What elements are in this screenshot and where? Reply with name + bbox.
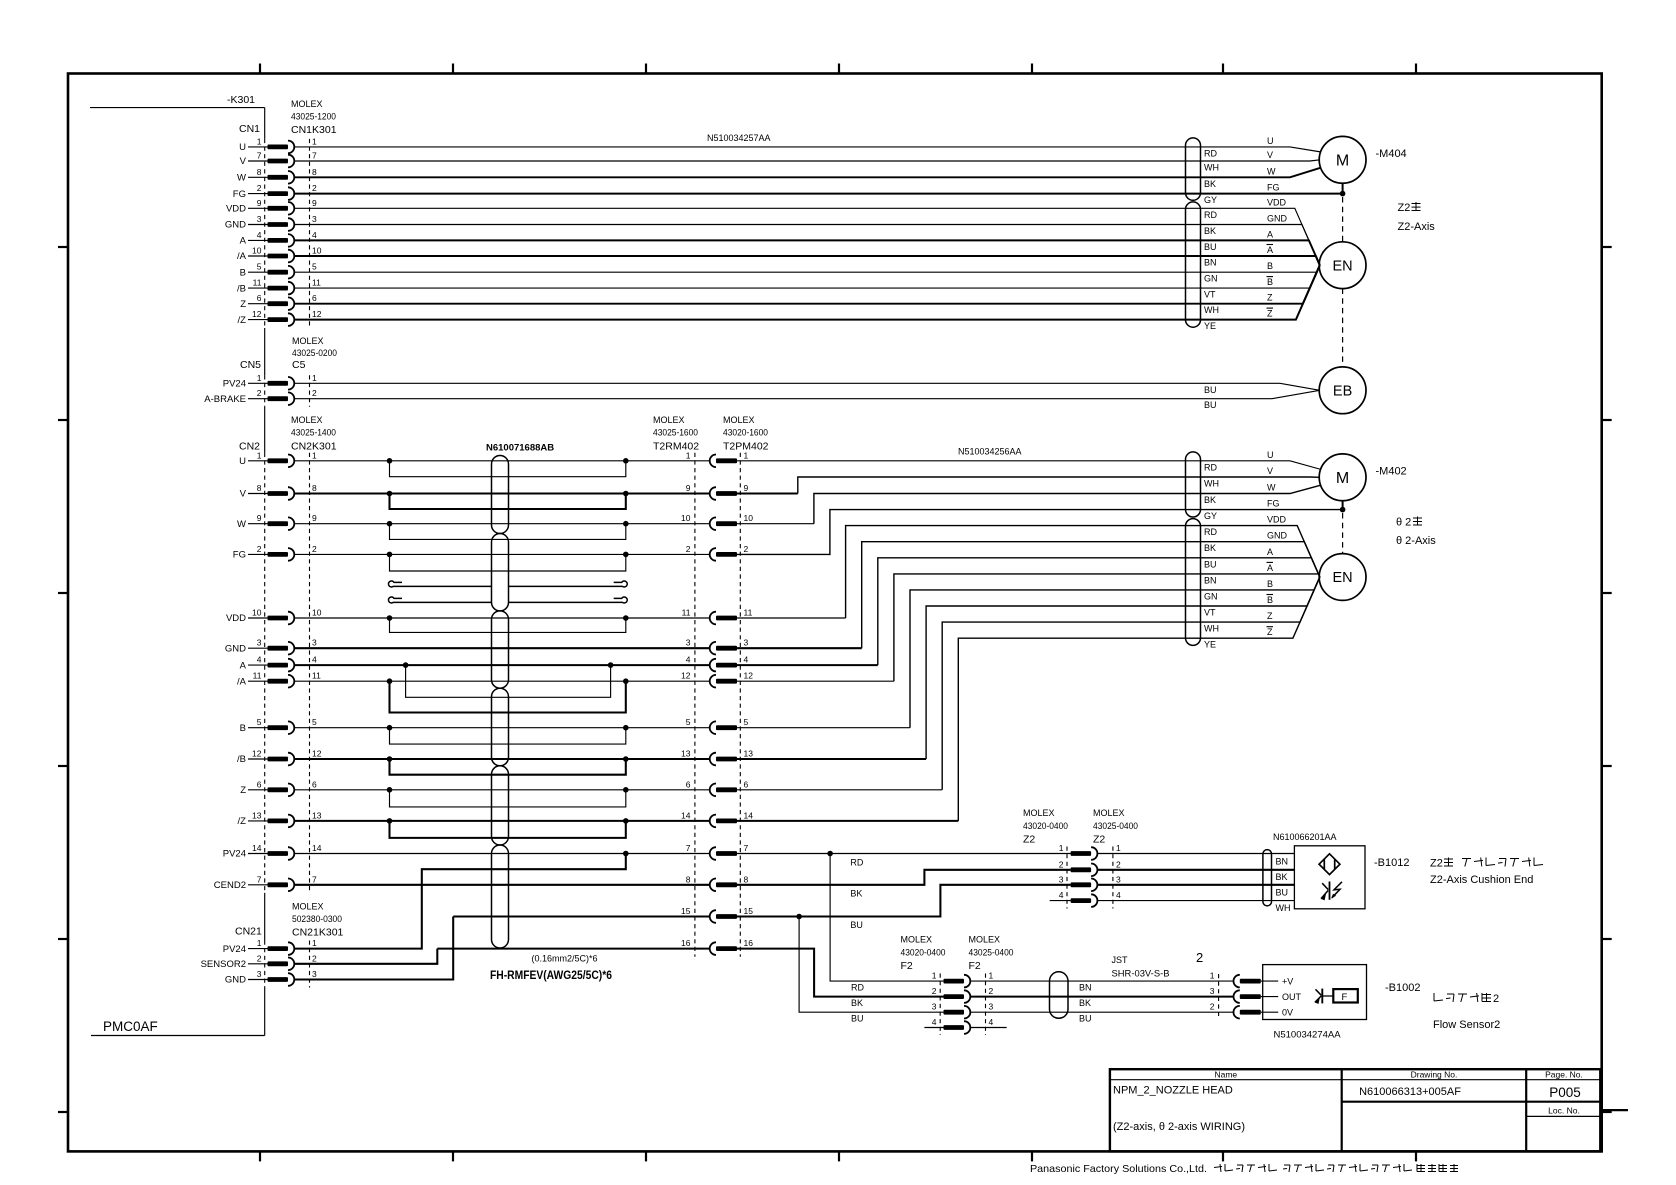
svg-text:N610071688AB: N610071688AB bbox=[486, 443, 554, 454]
svg-text:2: 2 bbox=[312, 183, 317, 193]
svg-text:7: 7 bbox=[744, 843, 749, 853]
svg-text:BK: BK bbox=[851, 998, 863, 1008]
svg-text:6: 6 bbox=[257, 293, 262, 303]
connector CN2 pin 2 (FG) bbox=[233, 544, 317, 561]
svg-text:B: B bbox=[1267, 261, 1273, 271]
svg-text:RD: RD bbox=[1204, 462, 1217, 472]
svg-text:11: 11 bbox=[682, 608, 691, 618]
connector Z2 (MOLEX 43025-0400) header bbox=[1093, 808, 1138, 846]
svg-text:Name: Name bbox=[1214, 1070, 1237, 1080]
wire F2 pin1 to JST (BN) bbox=[970, 980, 1234, 982]
svg-text:VDD: VDD bbox=[226, 204, 246, 215]
svg-text:4: 4 bbox=[686, 655, 691, 665]
connector CN1 pin 6 (Z) bbox=[240, 293, 317, 310]
connector CN5 housing dashed lines bbox=[265, 375, 310, 406]
wire CEND2 (CN2-7 through T2 pin8 to Z2 pin2) bbox=[295, 870, 1071, 885]
label Z2-axis cushion end (JP) bbox=[1430, 858, 1543, 887]
svg-text:BU: BU bbox=[1079, 1014, 1092, 1024]
svg-text:3: 3 bbox=[1116, 874, 1121, 884]
svg-text:8: 8 bbox=[257, 483, 262, 493]
svg-text:-B1012: -B1012 bbox=[1374, 857, 1409, 869]
svg-text:MOLEX: MOLEX bbox=[723, 415, 755, 425]
cable shield N510034257AA (encoder cores) bbox=[1186, 202, 1201, 327]
connector Z2 pin 2 bbox=[1059, 859, 1121, 876]
wire F2 pin3 to JST (BU) bbox=[970, 1011, 1234, 1013]
svg-text:7: 7 bbox=[686, 843, 691, 853]
sensor B1012 (Z2-axis cushion end) bbox=[1294, 846, 1365, 909]
svg-text:A: A bbox=[240, 660, 247, 671]
svg-text:B: B bbox=[1267, 277, 1273, 287]
svg-text:VDD: VDD bbox=[1267, 197, 1287, 207]
svg-text:BK: BK bbox=[1204, 179, 1216, 189]
connector JST pin 2 bbox=[1210, 1002, 1261, 1019]
svg-text:7: 7 bbox=[257, 151, 262, 161]
svg-text:F2: F2 bbox=[969, 960, 981, 972]
junction FG / M404 frame bbox=[1340, 183, 1346, 196]
connector pair T2RM402/T2PM402 pin 5 bbox=[686, 717, 749, 734]
wire A-BRAKE (CN5-2 to EB brake) bbox=[295, 390, 1320, 398]
svg-text:Z2: Z2 bbox=[1023, 834, 1035, 846]
svg-text:W: W bbox=[1267, 166, 1276, 176]
svg-text:15: 15 bbox=[681, 906, 691, 916]
connector CN2 pin 10 (VDD) bbox=[226, 608, 322, 625]
wire stub Z2 pin4 bbox=[1050, 900, 1071, 902]
connector CN1 pin 12 (/Z) bbox=[238, 309, 322, 326]
svg-text:43025-1600: 43025-1600 bbox=[653, 427, 698, 437]
svg-text:NPM_2_NOZZLE HEAD: NPM_2_NOZZLE HEAD bbox=[1113, 1085, 1233, 1097]
wire color labels (B1002 cable) bbox=[1079, 983, 1092, 1024]
svg-text:BK: BK bbox=[1204, 543, 1216, 553]
svg-text:MOLEX: MOLEX bbox=[291, 415, 323, 425]
svg-text:(Z2-axis, θ 2-axis WIRING): (Z2-axis, θ 2-axis WIRING) bbox=[1113, 1121, 1245, 1133]
svg-text:BN: BN bbox=[1204, 575, 1217, 585]
connector pair T2RM402/T2PM402 pin 8 bbox=[686, 874, 749, 891]
svg-text:BK: BK bbox=[1276, 872, 1288, 882]
wire F2 pin2 to JST (BK) bbox=[970, 996, 1234, 998]
svg-text:13: 13 bbox=[744, 749, 754, 759]
svg-text:RD: RD bbox=[850, 858, 863, 868]
svg-text:7: 7 bbox=[312, 874, 317, 884]
svg-text:4: 4 bbox=[1116, 890, 1121, 900]
wire Z2 pin1 to B1012 (BN) bbox=[1097, 853, 1294, 855]
svg-text:10: 10 bbox=[681, 513, 691, 523]
wire color labels (theta2 cable) bbox=[1204, 462, 1219, 649]
svg-text:43025-0400: 43025-0400 bbox=[969, 948, 1014, 958]
cable shield N510034256AA (motor cores) bbox=[1186, 452, 1201, 517]
svg-text:BU: BU bbox=[1204, 385, 1217, 395]
svg-text:RD: RD bbox=[851, 983, 864, 993]
connector CN21 / CN21K301 header bbox=[235, 902, 344, 939]
svg-text:N510034256AA: N510034256AA bbox=[958, 447, 1022, 457]
svg-text:B: B bbox=[240, 723, 246, 734]
brake EB bbox=[1319, 367, 1366, 414]
twisted-pair return loop (VDD) bbox=[387, 615, 629, 632]
wire /B (CN1-11 to EN encoder) bbox=[295, 265, 1320, 288]
wire PV24 (CN5-1 to EB brake) bbox=[295, 383, 1320, 390]
svg-text:4: 4 bbox=[744, 655, 749, 665]
connector pair T2RM402/T2PM402 pin 1 bbox=[686, 450, 749, 467]
wire T2 pin16 (SENSOR2 route) bbox=[437, 949, 943, 997]
svg-text:B: B bbox=[240, 267, 246, 278]
svg-text:11: 11 bbox=[253, 671, 262, 681]
svg-text:2: 2 bbox=[1116, 859, 1121, 869]
svg-text:3: 3 bbox=[1210, 986, 1215, 996]
cut shield drain wires (right) bbox=[509, 581, 628, 603]
svg-text:1: 1 bbox=[312, 938, 317, 948]
wire Z2 pin3 to B1012 (BU) bbox=[1097, 884, 1294, 886]
wire Z2 pin4 to B1012 (WH) bbox=[1097, 900, 1294, 902]
motor/encoder terminal labels (theta2 axis) bbox=[1267, 450, 1288, 637]
connector CN21 pin 3 (GND) bbox=[225, 969, 317, 986]
wire V (CN1-7 to M404) bbox=[295, 160, 1320, 161]
connector CN2 housing dashed lines bbox=[265, 453, 310, 893]
svg-text:FG: FG bbox=[233, 550, 246, 561]
connector CN1 housing dashed lines bbox=[265, 139, 310, 328]
svg-text:RD: RD bbox=[1204, 210, 1217, 220]
svg-text:2: 2 bbox=[1196, 950, 1203, 965]
svg-text:1: 1 bbox=[257, 450, 262, 460]
wire color labels (Z2 cushion feed) bbox=[850, 858, 863, 931]
svg-text:-M404: -M404 bbox=[1376, 148, 1407, 160]
footer company name bbox=[1030, 1163, 1458, 1175]
connector JST pin 1 bbox=[1210, 971, 1261, 988]
svg-text:BU: BU bbox=[1276, 888, 1289, 898]
connector pair T2RM402/T2PM402 pin 11 bbox=[682, 608, 753, 625]
svg-text:N510034274AA: N510034274AA bbox=[1274, 1030, 1342, 1041]
wire VDD (CN1-9 to EN encoder) bbox=[295, 208, 1320, 265]
svg-text:BU: BU bbox=[1204, 559, 1217, 569]
svg-text:V: V bbox=[240, 489, 247, 500]
wire FG (CN2-2 to T2RM402) bbox=[295, 553, 710, 555]
svg-text:BK: BK bbox=[1204, 495, 1216, 505]
svg-text:JST: JST bbox=[1112, 955, 1129, 965]
connector pair T2RM402/T2PM402 pin 16 bbox=[681, 938, 753, 955]
connector F2 (MOLEX 43020-0400) header bbox=[901, 935, 946, 973]
svg-text:MOLEX: MOLEX bbox=[1023, 808, 1055, 818]
encoder EN (Z2) bbox=[1319, 242, 1366, 289]
twisted-pair return loop (V) bbox=[387, 491, 629, 509]
svg-text:12: 12 bbox=[312, 749, 322, 759]
wire Z (CN1-6 to EN encoder) bbox=[295, 265, 1320, 304]
svg-text:YE: YE bbox=[1204, 640, 1216, 650]
connector F2 pin 1 bbox=[932, 971, 994, 988]
svg-text:2: 2 bbox=[257, 183, 262, 193]
svg-text:Z: Z bbox=[1267, 627, 1273, 637]
connector pair T2RM402/T2PM402 pin 3 bbox=[686, 638, 749, 655]
connector F2 pin 2 bbox=[932, 986, 994, 1003]
svg-text:-M402: -M402 bbox=[1376, 466, 1407, 478]
svg-text:3: 3 bbox=[257, 214, 262, 224]
connector pair T2RM402/T2PM402 pin 15 bbox=[681, 906, 753, 923]
svg-text:A-BRAKE: A-BRAKE bbox=[204, 394, 246, 405]
svg-text:8: 8 bbox=[744, 874, 749, 884]
svg-text:F: F bbox=[1342, 992, 1348, 1003]
svg-text:BK: BK bbox=[850, 889, 862, 899]
connector T2RM402/T2PM402 housing dashed lines bbox=[695, 453, 740, 957]
wire U (CN2-1 to T2RM402) bbox=[295, 460, 710, 462]
svg-text:VDD: VDD bbox=[1267, 515, 1287, 525]
wire CN21 GND riser bbox=[295, 917, 454, 980]
wire CN21 SENSOR2 riser bbox=[295, 949, 438, 964]
connector CN1 pin 11 (/B) bbox=[237, 278, 321, 295]
svg-text:MOLEX: MOLEX bbox=[653, 415, 685, 425]
wire /A (T2 to EN theta2) bbox=[737, 680, 894, 682]
svg-text:B: B bbox=[1267, 595, 1273, 605]
svg-text:MOLEX: MOLEX bbox=[291, 99, 323, 109]
wire FG (CN1-2 to M404 frame) bbox=[295, 193, 1343, 195]
svg-text:3: 3 bbox=[312, 214, 317, 224]
svg-text:9: 9 bbox=[257, 198, 262, 208]
connector CN2 / CN2K301 header bbox=[239, 415, 337, 453]
wire FG (T2 to M402 frame) bbox=[737, 510, 1343, 555]
svg-text:Loc. No.: Loc. No. bbox=[1548, 1106, 1580, 1116]
connector F2 (MOLEX 43025-0400) header bbox=[969, 935, 1014, 973]
svg-text:SHR-03V-S-B: SHR-03V-S-B bbox=[1112, 969, 1170, 979]
svg-text:GN: GN bbox=[1204, 591, 1218, 601]
svg-text:PV24: PV24 bbox=[223, 849, 246, 860]
connector CN1 / CN1K301 header bbox=[239, 99, 337, 136]
svg-text:2: 2 bbox=[1493, 993, 1499, 1005]
svg-text:3: 3 bbox=[1059, 874, 1064, 884]
connector CN1 pin 7 (V) bbox=[240, 151, 317, 168]
svg-text:11: 11 bbox=[312, 671, 321, 681]
svg-text:2: 2 bbox=[989, 986, 994, 996]
svg-text:M: M bbox=[1336, 470, 1349, 487]
connector CN2 pin 7 (CEND2) bbox=[214, 874, 317, 891]
connector CN1 pin 2 (FG) bbox=[233, 183, 317, 200]
wire VDD (CN2-10 to T2RM402) bbox=[295, 617, 710, 619]
svg-text:10: 10 bbox=[312, 246, 322, 256]
connector pair T2RM402/T2PM402 pin 7 bbox=[686, 843, 749, 860]
svg-text:5: 5 bbox=[744, 717, 749, 727]
svg-text:1: 1 bbox=[312, 450, 317, 460]
svg-text:MOLEX: MOLEX bbox=[901, 935, 933, 945]
svg-text:N610066201AA: N610066201AA bbox=[1273, 832, 1337, 842]
wire GND (T2 to EN theta2) bbox=[737, 647, 862, 649]
motor M404 bbox=[1319, 136, 1366, 183]
svg-text:Flow Sensor2: Flow Sensor2 bbox=[1433, 1019, 1500, 1031]
svg-text:Z2: Z2 bbox=[1430, 858, 1443, 870]
twisted-pair return loop (/A) bbox=[387, 678, 629, 712]
cable shield N510034256AA (encoder cores) bbox=[1186, 519, 1201, 646]
svg-text:2: 2 bbox=[257, 544, 262, 554]
wire CN21 PV24 branch (to CN2 PV24) bbox=[295, 854, 626, 949]
svg-text:SENSOR2: SENSOR2 bbox=[201, 959, 246, 970]
svg-text:16: 16 bbox=[681, 938, 691, 948]
wire /A (CN2-11 to T2RM402) bbox=[295, 680, 710, 682]
svg-text:WH: WH bbox=[1204, 163, 1219, 173]
svg-text:2: 2 bbox=[312, 953, 317, 963]
svg-text:5: 5 bbox=[257, 717, 262, 727]
svg-text:43020-1600: 43020-1600 bbox=[723, 427, 768, 437]
svg-text:V: V bbox=[240, 156, 247, 167]
dashed link EN to EB bbox=[1342, 289, 1344, 368]
svg-text:VT: VT bbox=[1204, 290, 1216, 300]
connector pair T2RM402/T2PM402 pin 12 bbox=[681, 671, 753, 688]
svg-text:13: 13 bbox=[312, 810, 322, 820]
svg-text:BN: BN bbox=[1079, 983, 1092, 993]
svg-text:Z: Z bbox=[1267, 309, 1273, 319]
svg-text:(0.16mm2/5C)*6: (0.16mm2/5C)*6 bbox=[532, 954, 598, 964]
svg-text:4: 4 bbox=[989, 1017, 994, 1027]
svg-text:B: B bbox=[1267, 579, 1273, 589]
svg-text:2: 2 bbox=[1210, 1002, 1215, 1012]
wire /Z (CN2-13 to T2RM402) bbox=[295, 820, 710, 822]
unit PMC0AF label bbox=[91, 1019, 265, 1036]
wire PV24 (CN2-14 through T2 pin7 to Z2 pin1) bbox=[295, 851, 1071, 857]
svg-text:1: 1 bbox=[312, 136, 317, 146]
svg-text:12: 12 bbox=[681, 671, 691, 681]
svg-text:6: 6 bbox=[312, 293, 317, 303]
wire U (CN1-1 to M404) bbox=[295, 147, 1322, 152]
svg-text:502380-0300: 502380-0300 bbox=[292, 914, 342, 924]
wire B (CN1-5 to EN encoder) bbox=[295, 265, 1320, 272]
svg-text:43025-1200: 43025-1200 bbox=[291, 112, 336, 122]
svg-text:A: A bbox=[1267, 547, 1273, 557]
wire A (CN2-4 to T2RM402) bbox=[295, 664, 710, 666]
svg-text:Z2: Z2 bbox=[1093, 834, 1105, 846]
svg-text:10: 10 bbox=[252, 246, 262, 256]
svg-text:θ 2-Axis: θ 2-Axis bbox=[1396, 535, 1436, 547]
wire A (T2 to EN theta2) bbox=[737, 664, 878, 666]
svg-text:+V: +V bbox=[1282, 977, 1293, 987]
svg-text:1: 1 bbox=[1059, 843, 1064, 853]
svg-text:GN: GN bbox=[1204, 274, 1218, 284]
svg-text:CN21K301: CN21K301 bbox=[292, 927, 344, 939]
connector T2PM402 header bbox=[723, 415, 769, 453]
svg-text:2: 2 bbox=[932, 986, 937, 996]
svg-text:9: 9 bbox=[686, 483, 691, 493]
connector CN1 pin 10 (/A) bbox=[237, 246, 322, 263]
wire /B (CN2-12 to T2RM402) bbox=[295, 758, 710, 760]
wire branch PV24 to F2 pin1 (RD) bbox=[830, 854, 943, 982]
svg-text:WH: WH bbox=[1204, 624, 1219, 634]
svg-text:BK: BK bbox=[1079, 998, 1091, 1008]
svg-text:43020-0400: 43020-0400 bbox=[901, 948, 946, 958]
svg-text:V: V bbox=[1267, 466, 1273, 476]
connector CN5 / C5 header bbox=[240, 336, 337, 371]
svg-text:BU: BU bbox=[1204, 400, 1217, 410]
svg-text:-B1002: -B1002 bbox=[1385, 982, 1420, 994]
wire /Z (CN1-12 to EN encoder) bbox=[295, 265, 1320, 319]
svg-text:FG: FG bbox=[1267, 183, 1280, 193]
wire stub F2 pin4 right bbox=[970, 1027, 1007, 1029]
svg-text:6: 6 bbox=[312, 779, 317, 789]
svg-text:EN: EN bbox=[1333, 258, 1353, 274]
svg-text:14: 14 bbox=[312, 843, 322, 853]
svg-text:M: M bbox=[1336, 153, 1349, 170]
svg-text:9: 9 bbox=[312, 513, 317, 523]
svg-text:3: 3 bbox=[686, 638, 691, 648]
svg-text:BU: BU bbox=[850, 920, 863, 930]
wire VDD (T2 to EN theta2) bbox=[737, 617, 846, 619]
svg-text:U: U bbox=[239, 142, 246, 153]
wire /B (T2 to EN theta2) bbox=[737, 758, 926, 760]
wire T2 pin15 (CN21 GND route to Z2 pin3) bbox=[453, 885, 1070, 920]
svg-text:2: 2 bbox=[1059, 859, 1064, 869]
svg-text:Panasonic Factory Solutions Co: Panasonic Factory Solutions Co.,Ltd. bbox=[1030, 1163, 1207, 1175]
svg-text:7: 7 bbox=[257, 874, 262, 884]
svg-text:2: 2 bbox=[257, 953, 262, 963]
svg-text:4: 4 bbox=[932, 1017, 937, 1027]
connector CN2 pin 4 (A) bbox=[240, 655, 317, 672]
svg-text:U: U bbox=[1267, 136, 1274, 146]
svg-text:5: 5 bbox=[312, 717, 317, 727]
svg-text:1: 1 bbox=[312, 373, 317, 383]
connector JST housing dashed line bbox=[1218, 974, 1220, 1016]
connector CN2 pin 8 (V) bbox=[240, 483, 317, 500]
svg-text:CN1: CN1 bbox=[239, 123, 260, 135]
svg-text:0V: 0V bbox=[1282, 1008, 1293, 1018]
svg-text:GND: GND bbox=[225, 220, 246, 231]
twisted-pair return loop (/Z) bbox=[387, 818, 629, 838]
unit -K301 boundary bbox=[90, 94, 265, 1036]
svg-text:9: 9 bbox=[257, 513, 262, 523]
svg-text:12: 12 bbox=[252, 309, 262, 319]
junction FG / M402 frame bbox=[1340, 501, 1346, 513]
label theta2-Axis bbox=[1396, 517, 1436, 548]
svg-text:W: W bbox=[237, 173, 246, 184]
svg-text:Z2-Axis: Z2-Axis bbox=[1398, 221, 1436, 233]
svg-text:CEND2: CEND2 bbox=[214, 880, 246, 891]
connector pair T2RM402/T2PM402 pin 9 bbox=[686, 483, 749, 500]
svg-text:/Z: /Z bbox=[238, 816, 247, 827]
wire B (T2 to EN theta2) bbox=[737, 727, 910, 729]
svg-text:CN21: CN21 bbox=[235, 926, 262, 938]
svg-text:EN: EN bbox=[1333, 570, 1353, 586]
connector CN2 pin 6 (Z) bbox=[240, 779, 317, 796]
cable spec labels bbox=[490, 954, 612, 983]
svg-text:BK: BK bbox=[1204, 226, 1216, 236]
svg-text:/A: /A bbox=[237, 251, 247, 262]
connector pair T2RM402/T2PM402 pin 6 bbox=[686, 779, 749, 796]
svg-text:2: 2 bbox=[686, 544, 691, 554]
connector F2 housing dashed lines bbox=[940, 974, 985, 1036]
svg-text:8: 8 bbox=[312, 483, 317, 493]
svg-text:Z: Z bbox=[1267, 611, 1273, 621]
svg-text:A: A bbox=[1267, 563, 1273, 573]
svg-text:FG: FG bbox=[233, 189, 246, 200]
svg-text:A: A bbox=[240, 236, 247, 247]
encoder EN (theta2) bbox=[1319, 554, 1366, 601]
twisted-pair return loop (FG) bbox=[387, 552, 629, 571]
svg-text:OUT: OUT bbox=[1282, 992, 1302, 1002]
svg-text:12: 12 bbox=[312, 309, 322, 319]
connector CN21 pin 2 (SENSOR2) bbox=[201, 953, 317, 970]
svg-text:5: 5 bbox=[312, 262, 317, 272]
svg-text:RD: RD bbox=[1204, 148, 1217, 158]
connector Z2 pin 4 bbox=[1059, 890, 1121, 907]
svg-text:P005: P005 bbox=[1549, 1085, 1581, 1100]
svg-text:CN1K301: CN1K301 bbox=[291, 124, 337, 136]
svg-text:1: 1 bbox=[989, 971, 994, 981]
connector CN2 pin 13 (/Z) bbox=[238, 810, 322, 827]
svg-text:10: 10 bbox=[252, 608, 262, 618]
svg-text:N610066313+005AF: N610066313+005AF bbox=[1359, 1086, 1461, 1098]
svg-text:θ 2: θ 2 bbox=[1396, 517, 1411, 529]
connector CN2 pin 12 (/B) bbox=[237, 749, 322, 766]
svg-text:43020-0400: 43020-0400 bbox=[1023, 821, 1068, 831]
svg-text:9: 9 bbox=[744, 483, 749, 493]
svg-text:11: 11 bbox=[744, 608, 753, 618]
svg-text:Z2-Axis Cushion End: Z2-Axis Cushion End bbox=[1430, 874, 1533, 886]
svg-text:Z: Z bbox=[240, 299, 246, 310]
wire branch T2 pin15 to F2 pin3 (BU) bbox=[799, 917, 943, 1013]
svg-text:PV24: PV24 bbox=[223, 944, 246, 955]
svg-text:14: 14 bbox=[681, 810, 691, 820]
wire GND (CN1-3 to EN encoder) bbox=[295, 225, 1320, 266]
connector pair T2RM402/T2PM402 pin 14 bbox=[681, 810, 753, 827]
